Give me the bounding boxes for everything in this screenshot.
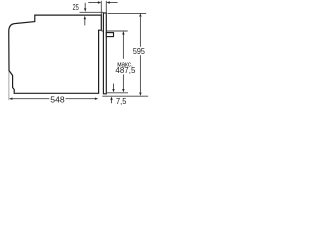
- background: [0, 0, 160, 120]
- extension line door-top extended right (595 dim): [108, 12, 147, 14]
- dimension 25: horizontal line left with right-arrow: [88, 2, 98, 4]
- oven door (front panel): [103, 13, 106, 94]
- extension line top-right vertical (door front plane, 25 dim): [105, 1, 107, 13]
- dimension 595: lower segment with down arrow: [139, 55, 141, 92]
- dimension 7,5: up arrow to door-bottom line: [111, 100, 113, 104]
- dimension 25: horizontal line right with left-arrow: [109, 2, 117, 4]
- dimension 548: left segment with left arrow: [9, 98, 12, 100]
- extension line top-left vertical (casing front plane, 25 dim): [100, 1, 102, 15]
- svg-text:487,5: 487,5: [115, 65, 135, 75]
- dimension 487,5: upper segment with up arrow: [122, 34, 124, 58]
- extension line door bottom extended right: [102, 95, 148, 97]
- svg-text:548: 548: [50, 94, 65, 104]
- extension line casing step extended right (487,5 dim): [102, 30, 128, 32]
- dimension 7,5: down arrow to casing-bottom line: [113, 84, 115, 90]
- dimension 487,5: lower segment with down arrow: [122, 74, 124, 89]
- svg-text:595: 595: [133, 46, 145, 56]
- svg-text:25: 25: [73, 3, 80, 12]
- svg-text:7,5: 7,5: [116, 96, 127, 106]
- dimension 595: upper segment with up arrow: [139, 17, 141, 47]
- extension line door-top extended left: [80, 11, 104, 13]
- extension line casing bottom extended right: [107, 92, 128, 94]
- oven body outline: [9, 15, 102, 93]
- dimension 25: down arrow to door-top line: [84, 3, 86, 9]
- extension line left (548 vertical extension): [8, 71, 10, 101]
- door tab / frame profile: [106, 33, 113, 37]
- dimension 548: right segment with right arrow: [66, 98, 96, 100]
- dimension 25: up arrow to casing top: [84, 19, 86, 25]
